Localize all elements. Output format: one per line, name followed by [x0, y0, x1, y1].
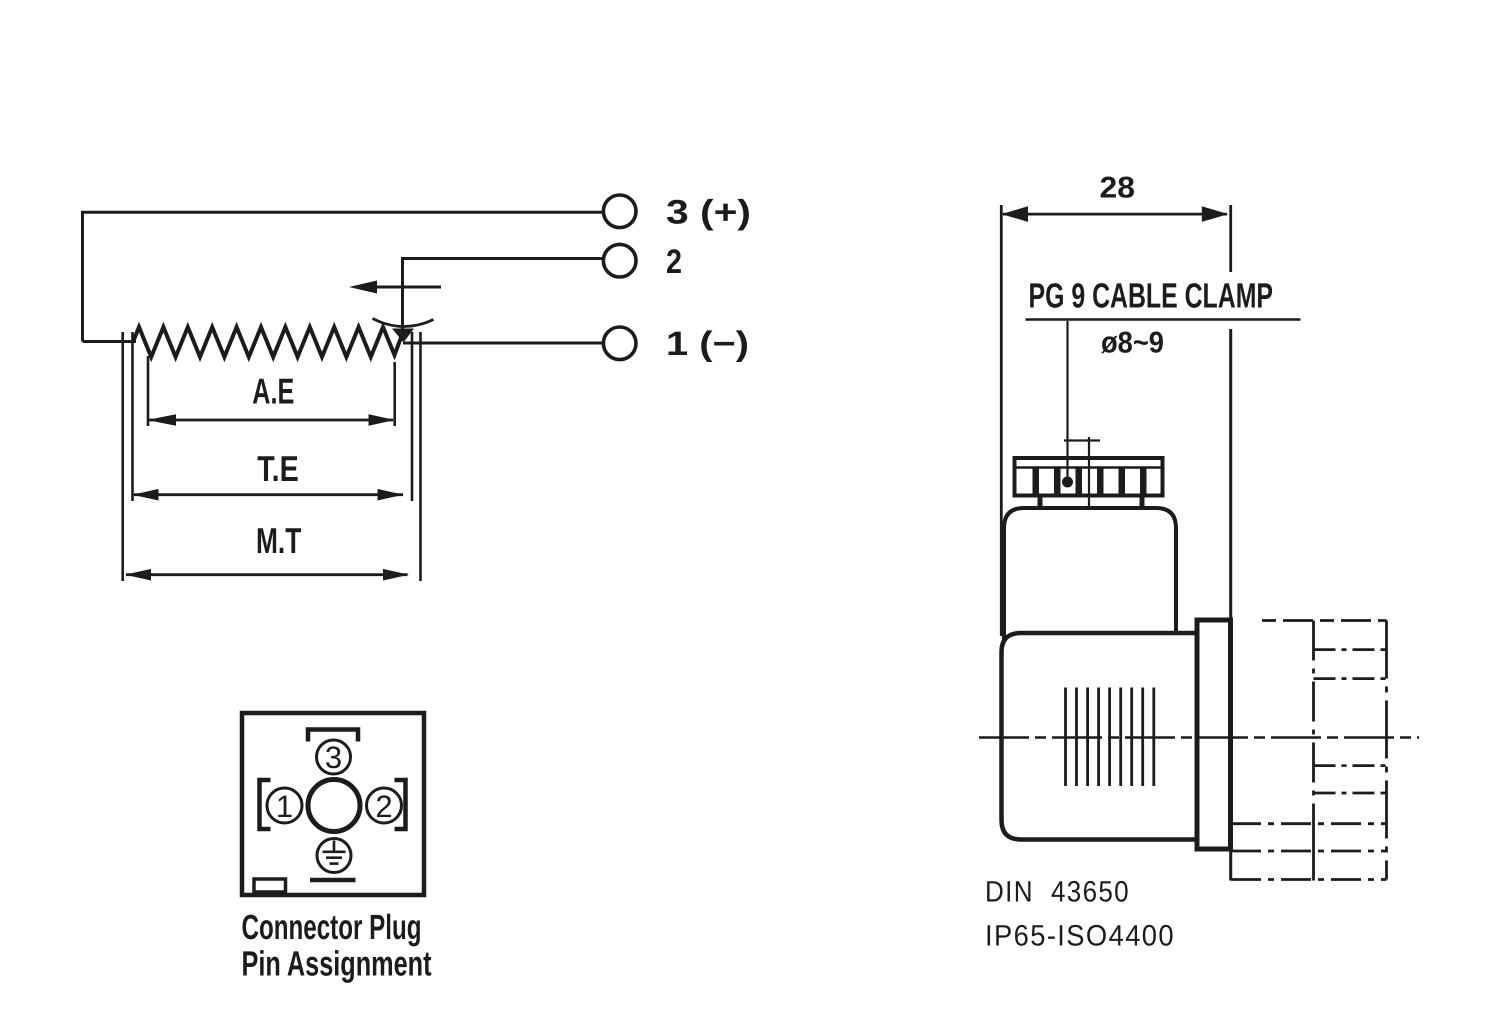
svg-text:1: 1	[276, 789, 293, 824]
svg-text:3 (+): 3 (+)	[666, 194, 751, 232]
svg-text:28: 28	[1100, 171, 1135, 204]
svg-text:Connector Plug: Connector Plug	[242, 908, 422, 947]
svg-text:PG 9 CABLE CLAMP: PG 9 CABLE CLAMP	[1029, 276, 1274, 315]
svg-text:1 (−): 1 (−)	[666, 325, 749, 363]
svg-text:2: 2	[375, 789, 392, 824]
svg-text:IP65-ISO4400: IP65-ISO4400	[985, 920, 1175, 953]
svg-text:DIN 43650: DIN 43650	[985, 876, 1130, 909]
svg-text:T.E: T.E	[257, 448, 298, 489]
svg-text:3: 3	[325, 740, 342, 775]
svg-text:Pin Assignment: Pin Assignment	[242, 944, 432, 983]
svg-text:2: 2	[666, 243, 682, 281]
svg-text:A.E: A.E	[252, 370, 294, 411]
svg-text:ø8~9: ø8~9	[1101, 327, 1164, 360]
svg-text:M.T: M.T	[256, 520, 301, 561]
